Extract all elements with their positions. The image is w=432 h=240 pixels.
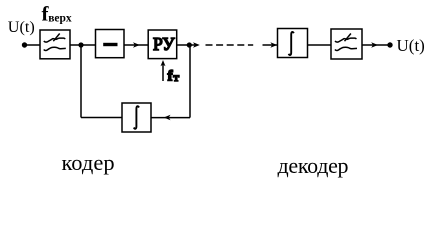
- filter F1 slash: [53, 34, 59, 42]
- node junction B: [187, 42, 192, 47]
- arrow into integrator: [270, 42, 277, 47]
- wire subtractor to RU: [124, 44, 148, 46]
- arrow at output: [371, 42, 378, 47]
- integral sign decoder: [289, 32, 294, 55]
- feedback wire down from junction B: [189, 45, 191, 118]
- node input dot: [22, 42, 27, 47]
- wire RU to junction B: [177, 44, 190, 46]
- wire junction A down: [80, 45, 82, 118]
- integral sign feedback: [134, 106, 139, 128]
- output filter block: [331, 29, 362, 59]
- svg-text:кодер: кодер: [62, 150, 115, 175]
- filter F1 wave top: [44, 38, 65, 42]
- svg-text:верх: верх: [48, 12, 72, 24]
- integrator block feedback: [122, 103, 151, 132]
- clock arrow into RU: [162, 64, 164, 81]
- filter F2 wave top: [335, 38, 356, 42]
- feedback wire integrator to junction A: [81, 117, 122, 119]
- svg-text:декодер: декодер: [278, 153, 349, 178]
- svg-text:Т: Т: [173, 73, 179, 83]
- wire channel to integrator: [263, 44, 278, 46]
- arrow out of junction B: [189, 44, 195, 46]
- wire integrator to output filter: [308, 44, 332, 46]
- feedback wire to integrator: [151, 117, 190, 119]
- integrator block decoder: [278, 29, 308, 58]
- filter block F1: [40, 30, 70, 59]
- wire input to filter1: [25, 44, 41, 46]
- node output dot: [387, 42, 392, 47]
- filter F2 wave bottom: [335, 47, 357, 50]
- decision unit RU block: [148, 30, 177, 59]
- subtractor block: [96, 30, 125, 58]
- filter F2 slash: [345, 34, 351, 42]
- wire filter1 to subtractor: [70, 44, 96, 46]
- channel dashed line: [206, 44, 254, 46]
- subtractor minus sign: [103, 43, 117, 46]
- wire output filter to output node: [362, 44, 390, 46]
- arrow into feedback integrator: [164, 115, 171, 120]
- node junction A: [78, 42, 83, 47]
- arrow into RU: [133, 42, 140, 47]
- filter F1 wave bottom: [44, 47, 66, 50]
- svg-text:РУ: РУ: [153, 34, 175, 54]
- svg-text:U(t): U(t): [397, 36, 425, 55]
- svg-text:U(t): U(t): [8, 18, 35, 36]
